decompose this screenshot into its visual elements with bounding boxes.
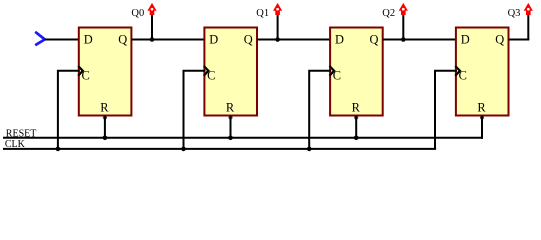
- svg-text:R: R: [477, 100, 486, 114]
- U1 R pin contact dot: [103, 115, 107, 119]
- junction CLK / U2.C: [181, 147, 186, 152]
- wire U2.R to RESET rail: [230, 116, 232, 139]
- wire U3.Q to U4.D (net Q2): [383, 39, 457, 41]
- U2 R pin contact dot: [228, 115, 232, 119]
- probe Q1 red arrow symbol: [273, 3, 282, 15]
- wire U4.Q to probe Q3: [509, 39, 530, 41]
- svg-text:Q: Q: [495, 32, 504, 46]
- U4 R pin contact dot: [480, 115, 484, 119]
- probe Q1 stem wire: [277, 14, 279, 40]
- svg-text:Q3: Q3: [508, 8, 521, 19]
- wire U2.Q to U3.D (net Q1): [257, 39, 331, 41]
- flip-flop U4: [455, 28, 508, 120]
- junction RESET / U3.R: [354, 136, 359, 141]
- wire IN to U1.D: [45, 39, 80, 41]
- wire U3.R to RESET rail: [355, 116, 357, 139]
- svg-text:R: R: [352, 100, 361, 114]
- U4 body: [456, 28, 509, 116]
- U3 body: [330, 28, 383, 116]
- U3 R pin contact dot: [354, 115, 358, 119]
- junction RESET / U2.R: [228, 136, 233, 141]
- probe Q3 stem wire: [527, 14, 529, 40]
- svg-text:Q1: Q1: [256, 8, 269, 19]
- probe Q2 red arrow symbol: [399, 3, 408, 15]
- U2 body: [204, 28, 257, 116]
- junction RESET / U1.R: [103, 136, 108, 141]
- wire U1.R to RESET rail: [104, 116, 106, 139]
- U4 clock input arrowhead: [455, 66, 460, 76]
- junction CLK / U1.C: [56, 147, 61, 152]
- wire RESET rail: [3, 137, 483, 139]
- svg-text:Q: Q: [370, 32, 379, 46]
- svg-text:Q: Q: [244, 32, 253, 46]
- probe Q3 red arrow symbol: [524, 3, 533, 15]
- svg-text:Q2: Q2: [382, 8, 395, 19]
- wire U1.Q to U2.D (net Q0): [131, 39, 205, 41]
- svg-text:D: D: [461, 32, 470, 46]
- U3 clock input arrowhead: [330, 66, 335, 76]
- svg-text:Q: Q: [118, 32, 127, 46]
- U1 clock input arrowhead: [78, 66, 83, 76]
- junction net Q2 / probe: [401, 37, 406, 42]
- input connector IN (blue): [35, 32, 45, 45]
- wire U3.C to CLK rail: [309, 71, 331, 149]
- svg-text:Q0: Q0: [131, 8, 144, 19]
- wire U4.C to CLK rail: [435, 71, 457, 149]
- flip-flop U1: [78, 28, 131, 120]
- probe Q0 stem wire: [151, 14, 153, 40]
- probe Q2 stem wire: [402, 14, 404, 40]
- wire U1.C to CLK rail: [58, 71, 80, 149]
- svg-text:D: D: [84, 32, 93, 46]
- junction net Q1 / probe: [275, 37, 280, 42]
- wire U4.R to RESET rail: [481, 116, 483, 139]
- svg-text:R: R: [226, 100, 235, 114]
- flip-flop U2: [204, 28, 257, 120]
- svg-text:RESET: RESET: [6, 128, 37, 139]
- flip-flop U3: [330, 28, 383, 120]
- svg-text:D: D: [209, 32, 218, 46]
- probe Q0 red arrow symbol: [147, 3, 156, 15]
- svg-text:D: D: [335, 32, 344, 46]
- U2 clock input arrowhead: [204, 66, 209, 76]
- junction net Q0 / probe: [150, 37, 155, 42]
- U1 body: [79, 28, 132, 116]
- junction CLK / U3.C: [307, 147, 312, 152]
- wire U2.C to CLK rail: [184, 71, 206, 149]
- wire CLK rail: [3, 148, 436, 150]
- svg-text:CLK: CLK: [5, 139, 26, 150]
- svg-text:R: R: [100, 100, 109, 114]
